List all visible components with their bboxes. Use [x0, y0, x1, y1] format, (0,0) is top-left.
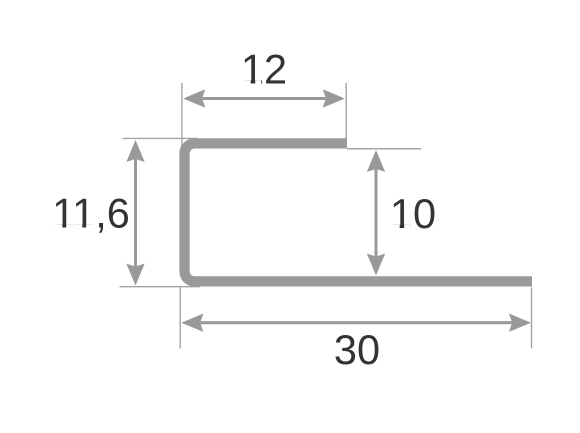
- extension line: 11,6 top: [123, 137, 199, 139]
- extension line: 30 left: [179, 287, 181, 348]
- dimension line 10: [367, 150, 385, 276]
- dimension line 12: [183, 89, 345, 107]
- dimension line 30: [181, 314, 531, 332]
- svg-text:12: 12: [241, 46, 287, 93]
- extension line: 12 right: [345, 83, 347, 139]
- extension line: 30 right: [531, 288, 533, 349]
- dimension line 11,6: [126, 140, 144, 286]
- extension line: 12 left: [181, 83, 183, 148]
- J-profile body: [185, 143, 533, 281]
- svg-text:10: 10: [390, 190, 436, 237]
- svg-text:30: 30: [334, 326, 380, 373]
- extension line: 11,6 bottom: [120, 286, 200, 288]
- extension line: 10 top: [347, 148, 421, 150]
- svg-text:11,6: 11,6: [52, 190, 130, 237]
